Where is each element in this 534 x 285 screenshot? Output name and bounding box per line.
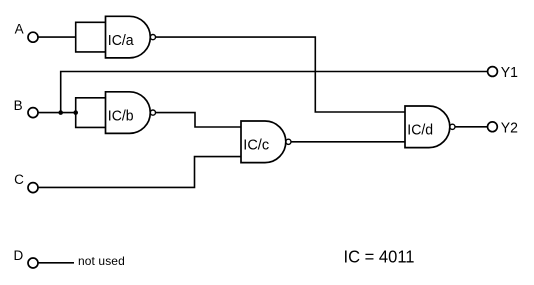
wire U1a input tie (both gate inputs shorted) xyxy=(76,22,106,52)
wire A to U1a input xyxy=(38,36,75,38)
svg-text:D: D xyxy=(14,248,24,263)
terminal A xyxy=(28,32,38,42)
terminal C xyxy=(28,183,38,193)
terminal D xyxy=(28,258,38,268)
svg-text:IC/d: IC/d xyxy=(407,122,433,139)
wire B to Y1 xyxy=(61,72,488,113)
svg-text:IC/b: IC/b xyxy=(108,107,134,124)
wire U1b output to U1c upper input xyxy=(155,113,241,127)
terminal Y1 xyxy=(488,67,498,77)
NAND gate U1d IC/d body xyxy=(405,106,450,148)
wire B to U1b input xyxy=(38,112,75,114)
junction B gate input xyxy=(73,110,78,115)
svg-text:C: C xyxy=(14,172,24,187)
U1b output bubble xyxy=(150,110,155,115)
U1d output bubble xyxy=(450,124,455,129)
junction B branch xyxy=(58,110,63,115)
svg-text:not used: not used xyxy=(78,254,125,268)
wire D stub xyxy=(38,262,74,264)
U1a output bubble xyxy=(150,35,155,40)
wire U1d output to Y2 xyxy=(455,126,487,128)
NAND gate U1a IC/a body xyxy=(106,16,151,58)
svg-text:B: B xyxy=(14,98,23,113)
wire U1a output to U1d upper input xyxy=(155,37,405,112)
U1c output bubble xyxy=(286,139,291,144)
svg-text:A: A xyxy=(15,22,24,37)
wire C to U1c lower input xyxy=(38,157,241,188)
terminal B xyxy=(28,108,38,118)
svg-text:Y1: Y1 xyxy=(501,65,518,81)
terminal Y2 xyxy=(488,122,498,132)
svg-text:IC/c: IC/c xyxy=(243,137,269,154)
NAND gate U1c IC/c body xyxy=(241,121,286,163)
svg-text:IC = 4011: IC = 4011 xyxy=(344,247,415,267)
wire U1b input tie xyxy=(76,98,106,128)
NAND gate U1b IC/b body xyxy=(106,92,151,134)
svg-text:Y2: Y2 xyxy=(501,120,518,136)
svg-text:IC/a: IC/a xyxy=(108,32,134,49)
wire U1c output to U1d lower input xyxy=(291,141,405,143)
